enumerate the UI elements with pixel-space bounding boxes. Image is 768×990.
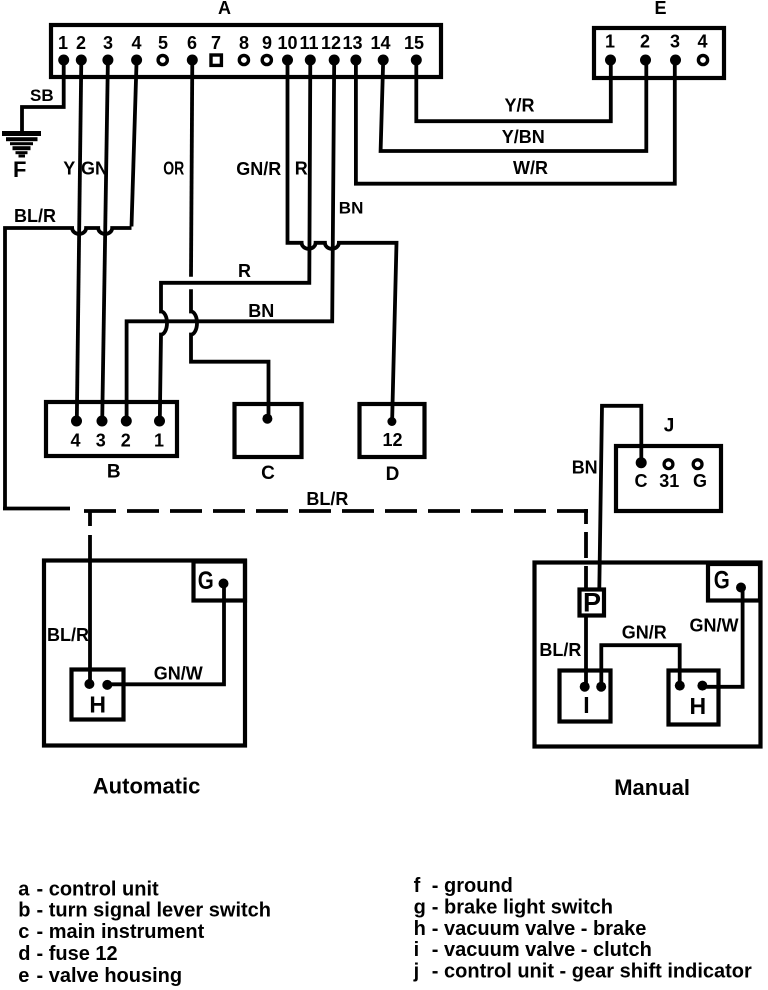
svg-text:GN/W: GN/W xyxy=(154,664,203,684)
connector J pins 31 and G (open) xyxy=(664,460,702,469)
svg-text:H: H xyxy=(689,693,706,719)
label BN (at pin 12) xyxy=(339,199,364,218)
svg-text:Y/BN: Y/BN xyxy=(502,127,545,147)
svg-text:2: 2 xyxy=(121,430,131,450)
label BN (mid wire) xyxy=(248,301,274,321)
svg-text:4: 4 xyxy=(131,33,141,53)
svg-text:BL/R: BL/R xyxy=(539,640,581,660)
brake light switch G (manual) xyxy=(708,564,760,601)
svg-text:d: d xyxy=(18,943,30,965)
svg-text:8: 8 xyxy=(239,33,249,53)
wire BL/R horizontal with hops xyxy=(5,228,132,508)
svg-text:G: G xyxy=(693,471,707,491)
main instrument connector C xyxy=(235,404,302,457)
wire GN/W: G to H (automatic) xyxy=(110,586,224,684)
svg-text:3: 3 xyxy=(96,430,106,450)
wire Y/R: A pin15 to E pin1 xyxy=(416,60,611,121)
connector P box xyxy=(580,590,605,616)
connector E pin numbers 1-4 xyxy=(605,32,708,52)
connector C pin contact xyxy=(262,414,272,424)
label W/R xyxy=(513,158,548,178)
svg-text:R: R xyxy=(295,159,308,179)
svg-text:e: e xyxy=(18,965,29,987)
label B xyxy=(107,462,121,483)
svg-text:Y: Y xyxy=(63,159,75,179)
svg-text:Manual: Manual xyxy=(614,775,690,800)
wire BL/R dashed drop to P (manual) xyxy=(584,509,588,589)
svg-text:BN: BN xyxy=(572,458,598,478)
svg-text:13: 13 xyxy=(342,33,362,53)
svg-text:1: 1 xyxy=(58,33,68,53)
svg-text:5: 5 xyxy=(158,33,168,53)
svg-text:D: D xyxy=(386,464,400,485)
valve housing box (automatic) xyxy=(44,561,245,746)
connector A unused pins 5,8,9 (open circles) xyxy=(158,55,271,64)
wire GN/W: G to H (manual) xyxy=(706,590,743,687)
labels C 31 G inside J xyxy=(635,471,708,491)
wire GN: A pin3 to B pin3 xyxy=(102,60,108,421)
svg-text:Y/R: Y/R xyxy=(505,96,535,116)
wire SB: A pin1 to ground F xyxy=(22,60,64,131)
wire OR: A pin6 to C xyxy=(191,60,269,417)
svg-text:4: 4 xyxy=(697,32,707,52)
wire Y: A pin2 to B pin4 xyxy=(77,60,82,421)
label Y/BN xyxy=(502,127,545,147)
svg-text:BL/R: BL/R xyxy=(47,625,89,645)
svg-text:I: I xyxy=(583,692,589,718)
svg-text:9: 9 xyxy=(262,33,272,53)
svg-text:h: h xyxy=(414,918,426,940)
label Manual xyxy=(614,775,690,800)
control unit connector A xyxy=(51,25,441,77)
legend left column xyxy=(18,878,271,987)
label Automatic xyxy=(93,774,201,799)
svg-text:B: B xyxy=(107,462,121,483)
svg-text:R: R xyxy=(238,261,251,281)
valve housing box (manual) xyxy=(535,563,761,747)
connector J pin C contact xyxy=(636,457,647,468)
connector A pin numbers 1-15 xyxy=(58,33,424,53)
label GN/W (automatic) xyxy=(154,664,203,684)
connector E xyxy=(594,28,724,78)
G contact (manual) xyxy=(736,583,746,593)
control unit gear shift indicator connector J xyxy=(616,446,721,511)
wire GN/R: A pin10 to fuse D with hops xyxy=(288,60,397,418)
svg-text:F: F xyxy=(13,157,26,182)
svg-text:- ground: - ground xyxy=(432,875,513,897)
label Y xyxy=(63,159,75,179)
svg-text:GN/W: GN/W xyxy=(690,616,739,636)
fuse 12 connector D xyxy=(360,404,425,457)
svg-text:i: i xyxy=(414,939,420,961)
svg-text:SB: SB xyxy=(30,86,54,105)
svg-text:1: 1 xyxy=(605,32,615,52)
label GN/R (manual) xyxy=(622,623,667,643)
ground symbol F xyxy=(2,131,41,158)
label BL/R top left xyxy=(14,206,56,226)
svg-text:H: H xyxy=(89,692,106,718)
svg-text:- control unit: - control unit xyxy=(37,878,160,900)
label A xyxy=(218,0,231,18)
svg-text:C: C xyxy=(635,471,648,491)
vacuum valve clutch I xyxy=(560,671,611,722)
label G (automatic) xyxy=(198,567,214,595)
wire: P to I pin1 xyxy=(584,615,588,684)
svg-text:Automatic: Automatic xyxy=(93,774,201,799)
vacuum valve brake H (automatic) xyxy=(72,670,124,720)
svg-text:- main instrument: - main instrument xyxy=(37,921,205,943)
svg-text:GN/R: GN/R xyxy=(236,159,281,179)
svg-text:- valve housing: - valve housing xyxy=(37,965,183,987)
H contacts (manual) xyxy=(675,681,708,691)
svg-text:6: 6 xyxy=(187,33,197,53)
svg-text:2: 2 xyxy=(640,32,650,52)
svg-text:P: P xyxy=(583,588,601,618)
svg-text:OR: OR xyxy=(163,159,184,179)
connector D pin contact xyxy=(387,417,396,426)
svg-text:- control unit - gear shift in: - control unit - gear shift indicator xyxy=(432,960,752,982)
label E xyxy=(654,0,666,18)
wire BL/R dashed drop to automatic H xyxy=(88,511,92,681)
label R (at pin 11) xyxy=(295,159,308,179)
connector E pin contacts xyxy=(605,55,708,66)
svg-text:A: A xyxy=(218,0,231,18)
svg-text:a: a xyxy=(18,878,30,900)
svg-text:BL/R: BL/R xyxy=(306,489,348,509)
svg-text:GN/R: GN/R xyxy=(622,623,667,643)
I contacts xyxy=(580,682,607,692)
wire BL/R solid stub bottom left xyxy=(3,507,70,511)
label H (automatic) xyxy=(89,692,106,718)
svg-text:j: j xyxy=(413,960,420,982)
brake light switch G (automatic) xyxy=(194,562,246,601)
label H (manual) xyxy=(689,693,706,719)
legend right column xyxy=(413,875,752,982)
svg-text:c: c xyxy=(18,921,29,943)
svg-text:BN: BN xyxy=(248,301,274,321)
vacuum valve brake H (manual) xyxy=(669,671,719,725)
label BL/R (manual) xyxy=(539,640,581,660)
svg-text:12: 12 xyxy=(321,33,341,53)
svg-text:1: 1 xyxy=(154,430,164,450)
H contacts (automatic) xyxy=(84,679,112,690)
label GN xyxy=(81,159,108,179)
svg-text:G: G xyxy=(198,567,214,595)
connector A pin contacts (filled) xyxy=(58,55,422,66)
turn signal lever switch connector B xyxy=(46,402,177,456)
connector B pin contacts xyxy=(71,416,165,427)
wire BN: A pin12 to B pin2 xyxy=(127,60,335,421)
svg-text:2: 2 xyxy=(76,33,86,53)
svg-text:10: 10 xyxy=(277,33,297,53)
wire GN/R: I pin2 to H pin1 (manual) xyxy=(601,645,679,684)
svg-text:C: C xyxy=(261,463,275,484)
svg-text:G: G xyxy=(714,567,730,595)
label P xyxy=(583,588,601,618)
label GN/W (manual) xyxy=(690,616,739,636)
label BL/R on dashed line xyxy=(306,489,348,509)
label BL/R (automatic) xyxy=(47,625,89,645)
G contact (automatic) xyxy=(219,579,229,589)
label J xyxy=(664,416,675,437)
svg-text:15: 15 xyxy=(404,33,424,53)
connector B pin numbers 4,3,2,1 xyxy=(70,430,164,450)
svg-text:- fuse 12: - fuse 12 xyxy=(37,943,118,965)
svg-text:BN: BN xyxy=(339,199,364,218)
wire BN: J pin C to P xyxy=(599,406,641,589)
wire Y/BN: A pin14 to E pin2 xyxy=(381,60,647,151)
label D xyxy=(386,464,400,485)
svg-text:12: 12 xyxy=(382,430,402,450)
label GN/R xyxy=(236,159,281,179)
svg-text:f: f xyxy=(414,875,421,897)
svg-text:- brake light switch: - brake light switch xyxy=(432,896,613,918)
svg-text:b: b xyxy=(18,900,30,922)
label BN (near J) xyxy=(572,458,598,478)
svg-text:GN: GN xyxy=(81,159,108,179)
svg-text:- vacuum valve - brake: - vacuum valve - brake xyxy=(432,918,647,940)
svg-text:BL/R: BL/R xyxy=(14,206,56,226)
label G (manual) xyxy=(714,567,730,595)
svg-text:4: 4 xyxy=(70,430,80,450)
label OR xyxy=(163,159,184,179)
svg-text:14: 14 xyxy=(370,33,390,53)
svg-text:E: E xyxy=(654,0,666,18)
svg-text:7: 7 xyxy=(211,33,221,53)
svg-text:3: 3 xyxy=(103,33,113,53)
label F xyxy=(13,157,26,182)
svg-text:3: 3 xyxy=(670,32,680,52)
wire R: A pin11 to B pin1 xyxy=(160,60,310,421)
wire W/R: A pin13 to E pin3 xyxy=(356,60,675,184)
connector A unused pin 7 (open square) xyxy=(211,55,221,65)
label 12 (fuse number) xyxy=(382,430,402,450)
label C xyxy=(261,463,275,484)
svg-text:- vacuum valve - clutch: - vacuum valve - clutch xyxy=(432,939,652,961)
wire BL/R: A pin4 down to junction xyxy=(132,60,137,227)
svg-text:W/R: W/R xyxy=(513,158,548,178)
label I xyxy=(583,692,589,718)
svg-text:g: g xyxy=(414,896,426,918)
svg-text:31: 31 xyxy=(659,471,679,491)
label SB xyxy=(30,86,54,105)
wire BL/R dashed line xyxy=(84,509,588,513)
svg-text:11: 11 xyxy=(299,33,318,53)
svg-text:J: J xyxy=(664,416,675,437)
label R (mid wire) xyxy=(238,261,251,281)
svg-text:- turn signal lever switch: - turn signal lever switch xyxy=(37,900,272,922)
label Y/R xyxy=(505,96,535,116)
